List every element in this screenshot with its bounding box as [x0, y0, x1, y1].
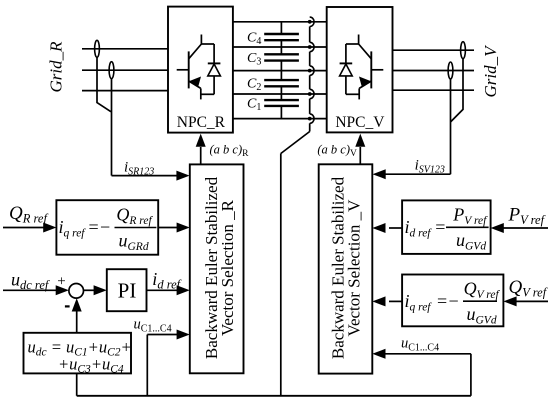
svg-text:PI: PI: [118, 278, 137, 302]
svg-text:+: +: [57, 274, 65, 290]
svg-text:=: =: [435, 217, 445, 237]
svg-text:−: −: [449, 291, 459, 311]
svg-text:Grid_V: Grid_V: [481, 44, 500, 98]
svg-text:=: =: [437, 291, 447, 311]
svg-text:NPC_V: NPC_V: [335, 114, 385, 131]
svg-text:Vector Selection _V: Vector Selection _V: [344, 199, 363, 337]
svg-text:=: =: [89, 217, 99, 237]
svg-text:NPC_R: NPC_R: [177, 114, 226, 131]
svg-text:Vector Selection _R: Vector Selection _R: [218, 199, 237, 336]
svg-text:−: −: [100, 217, 110, 237]
svg-text:Grid_R: Grid_R: [47, 41, 66, 93]
